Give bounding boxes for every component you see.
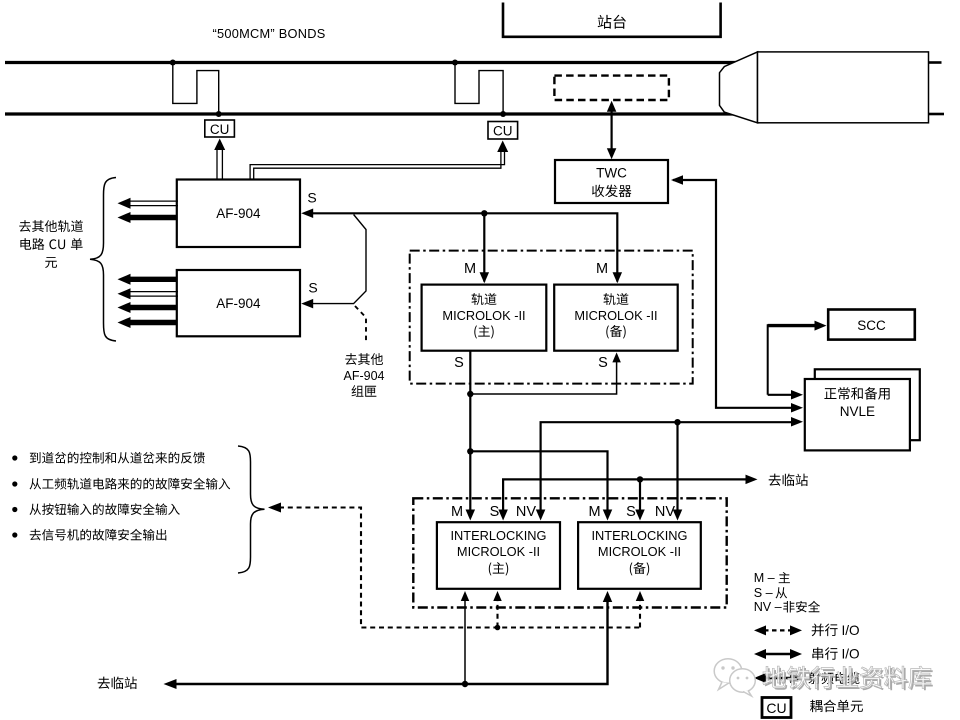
NVLE stacked boxes 正常和备用 NVLE <box>805 369 920 450</box>
wire: dashed riser interlocking master <box>493 591 502 628</box>
svg-text:MICROLOK -II: MICROLOK -II <box>574 308 657 323</box>
AF-904 track circuit unit #2 <box>177 270 300 336</box>
TWC transceiver box <box>555 160 668 203</box>
bullet list: interlocking I/O descriptions <box>12 452 230 541</box>
svg-text:“500MCM” BONDS: “500MCM” BONDS <box>213 26 326 41</box>
impedance bond jumper B2 <box>452 60 506 118</box>
wire: branch to interlocking standby M <box>470 451 612 520</box>
svg-text:S: S <box>454 355 464 371</box>
label S (AF-904 #2 serial) <box>308 280 317 296</box>
wire: serial S bus from track MICROLOK to AF-904 #1 <box>301 209 622 284</box>
svg-text:CU: CU <box>766 700 786 716</box>
svg-text:SCC: SCC <box>857 318 886 333</box>
svg-text:M: M <box>464 261 476 277</box>
svg-text:MICROLOK -II: MICROLOK -II <box>598 544 681 559</box>
svg-text:AF-904: AF-904 <box>216 296 261 311</box>
label 去其他 AF-904 组匣 <box>344 353 385 397</box>
label S (interlocking master) <box>490 504 500 520</box>
svg-text:NVLE: NVLE <box>840 404 875 419</box>
svg-text:TWC: TWC <box>596 166 627 181</box>
svg-text:AF-904: AF-904 <box>344 369 385 383</box>
wire: NV drop to interlocking standby <box>673 422 683 520</box>
interlocking MICROLOK-II standby box <box>578 522 701 589</box>
wire: bottom serial bus to adjacent station <box>164 591 613 689</box>
svg-text:I/O: I/O <box>842 647 860 662</box>
label S (track master) <box>454 355 464 371</box>
legend M = master <box>754 571 790 585</box>
svg-text:S: S <box>308 280 317 296</box>
svg-text:S: S <box>307 190 316 206</box>
svg-text:MICROLOK -II: MICROLOK -II <box>457 544 540 559</box>
platform 站台 bracket <box>503 3 721 37</box>
label M (interlocking standby) <box>588 504 600 520</box>
svg-text:INTERLOCKING: INTERLOCKING <box>592 528 688 543</box>
svg-text:S: S <box>598 355 608 371</box>
track MICROLOK-II master box <box>422 285 547 351</box>
wire: serial S bus to adjacent station <box>498 475 757 521</box>
wire: S branch to AF-904 #2 <box>301 215 366 309</box>
AF-904 track circuit unit #1 <box>177 180 300 248</box>
label "500MCM" BONDS <box>213 26 326 41</box>
svg-text:CU: CU <box>493 124 513 139</box>
wire: AF-904 #1 to CU1 (double line, arrow up) <box>214 139 225 181</box>
label M (track master) <box>464 261 476 277</box>
label 去其他轨道电路CU单元 <box>19 220 83 268</box>
impedance bond jumper B1 <box>170 60 222 118</box>
label S (interlocking standby) <box>626 504 636 520</box>
wire: AF-904 #2 outputs to other track circuit CUs <box>118 274 179 328</box>
dash-dot enclosure: interlocking MICROLOK pair <box>413 498 726 607</box>
svg-text:I/O: I/O <box>842 623 860 638</box>
wire: S drop to interlocking standby <box>635 479 645 520</box>
track MICROLOK-II standby box <box>554 285 678 351</box>
wire: top rail <box>5 61 744 64</box>
dashed enclosure: track MICROLOK pair <box>410 251 693 384</box>
interlocking MICROLOK-II master box <box>437 522 560 589</box>
label NV (interlocking standby) <box>655 504 675 520</box>
legend CU box 耦合单元 <box>762 698 863 718</box>
svg-text:M: M <box>588 504 600 520</box>
SCC box <box>828 310 915 340</box>
label 去临站 (right) <box>769 474 808 487</box>
TWC antenna loop (dashed) <box>554 76 669 100</box>
legend S = slave <box>754 586 787 600</box>
wire: TWC to NVLE connector <box>671 175 803 412</box>
svg-text:CU: CU <box>210 122 230 137</box>
legend arrow RF cable (behind watermark) <box>754 672 860 684</box>
watermark: WeChat icon + 地铁行业资料库 <box>714 659 933 696</box>
wire: AF-904 #1 outputs to other track circuit CUs <box>118 198 179 223</box>
wire: right rail stubs <box>929 63 945 115</box>
wire: dashed parallel I/O bus to wayside objects <box>268 503 640 631</box>
label M (track standby) <box>596 261 608 277</box>
svg-text:S –: S – <box>754 586 773 600</box>
wire: dashed branch to other AF-904 shelves <box>355 306 366 341</box>
wire: AF-904 #1 to CU2 (double line, arrow up) <box>250 141 508 181</box>
svg-text:MICROLOK -II: MICROLOK -II <box>442 308 525 323</box>
brace: to other track circuit CU units <box>90 178 116 342</box>
svg-text:M: M <box>451 504 463 520</box>
legend solid arrow 串行 I/O <box>754 647 860 662</box>
legend dashed arrow 并行 I/O <box>754 623 860 638</box>
svg-text:M –: M – <box>754 571 775 585</box>
legend NV = non-vital <box>754 600 820 614</box>
svg-text:NV –: NV – <box>754 600 782 614</box>
wire: track master S output down to interlocking M <box>466 351 476 521</box>
train vehicle <box>720 52 929 123</box>
svg-text:NV: NV <box>655 504 675 520</box>
svg-text:S: S <box>490 504 500 520</box>
wire: M drop to track MICROLOK master <box>480 213 490 283</box>
wire: SCC / NVLE feed <box>768 321 827 400</box>
label NV (interlocking master) <box>516 504 536 520</box>
svg-text:INTERLOCKING: INTERLOCKING <box>451 528 547 543</box>
wire: NV bus to NVLE <box>536 417 803 520</box>
label 站台 <box>598 15 626 29</box>
brace: bullet list to parallel I/O <box>238 446 265 573</box>
label S (track standby) <box>598 355 608 371</box>
label 去临站 (bottom) <box>98 677 137 690</box>
svg-text:NV: NV <box>516 504 536 520</box>
wire: bottom rail <box>5 112 744 115</box>
wire: dashed riser interlocking standby <box>636 591 645 628</box>
wire: S link master to standby <box>470 352 621 394</box>
wire: riser to interlocking master bottom <box>461 591 470 684</box>
coupling unit CU1 <box>205 120 235 137</box>
wire: TWC to antenna loop (double-headed arrow) <box>607 101 617 160</box>
svg-text:M: M <box>596 261 608 277</box>
label S (AF-904 #1 serial) <box>307 190 316 206</box>
svg-text:S: S <box>626 504 636 520</box>
coupling unit CU2 <box>488 122 518 140</box>
label M (interlocking master) <box>451 504 463 520</box>
svg-text:AF-904: AF-904 <box>216 206 261 221</box>
